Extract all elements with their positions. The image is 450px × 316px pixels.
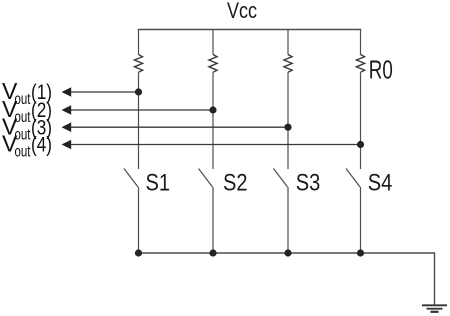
wire branch 4 upper [360,30,362,55]
svg-text:Vcc: Vcc [227,0,257,23]
switch S2 blade [199,169,213,188]
svg-text:R0: R0 [369,55,393,85]
node branch 4 / ground rail [357,249,364,256]
resistor R (branch 2) [209,55,217,73]
Vout(1) label [2,78,52,108]
switch S4 blade [346,169,360,188]
Vout(3) arrowhead [62,122,72,132]
wire branch 2 lower [212,187,214,253]
wire branch 1 middle [138,72,140,169]
Vout(4) label [2,131,52,161]
resistor R0 (branch 4) [356,55,364,73]
Vcc rail [138,29,361,31]
wire branch 2 upper [212,30,214,55]
node on branch 3 (Vout3 tap) [284,124,291,131]
switch S1 blade [124,169,138,188]
Vout(3) output wire [70,126,288,128]
svg-text:(4): (4) [31,134,52,157]
Vout(1) arrowhead [62,87,72,97]
wire branch 1 upper [138,30,140,55]
wire branch 4 lower [360,187,362,253]
wire branch 3 middle [287,72,289,169]
wire branch 4 middle [360,72,362,169]
svg-text:out: out [15,144,31,161]
svg-text:S1: S1 [146,170,171,197]
wire branch 1 lower [138,187,140,253]
Vout(4) output wire [70,144,361,146]
resistor R (branch 3) [284,55,292,73]
ground rail [139,253,435,305]
wire branch 2 middle [212,72,214,169]
resistor R (branch 1) [134,55,142,73]
Vout(2) output wire [70,109,213,111]
node branch 1 / ground rail [135,249,142,256]
node on branch 1 (Vout1 tap) [135,88,142,95]
svg-text:S2: S2 [223,170,248,197]
node on branch 2 (Vout2 tap) [209,106,216,113]
node branch 2 / ground rail [209,249,216,256]
Vout(2) label [2,96,52,126]
wire branch 3 upper [287,30,289,55]
Vout(1) output wire [70,91,139,93]
Vout(2) arrowhead [62,105,72,115]
wire branch 3 lower [287,187,289,253]
Vout(4) arrowhead [62,140,72,150]
switch S3 blade [274,169,288,188]
node branch 3 / ground rail [284,249,291,256]
Vout(3) label [2,114,52,144]
svg-text:S4: S4 [368,170,393,197]
svg-text:S3: S3 [296,170,321,197]
node on branch 4 (Vout4 tap) [357,141,364,148]
ground symbol [422,305,447,312]
